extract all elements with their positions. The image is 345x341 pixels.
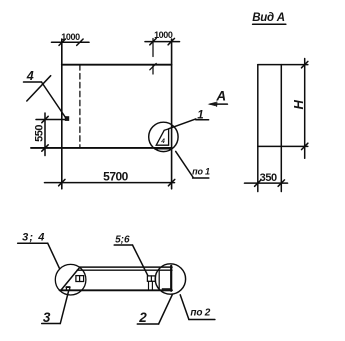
- gusset triangle in detail: [156, 129, 168, 145]
- inner vertical at right end: [158, 270, 160, 290]
- bar top line 1: [80, 266, 172, 268]
- svg-text:3: 3: [43, 310, 51, 325]
- slash across leader: [27, 76, 51, 101]
- svg-text:1000: 1000: [154, 30, 173, 40]
- embedded plate right end (filled): [162, 288, 171, 291]
- detail circle right (plan): [155, 264, 185, 294]
- label 3 underline: [42, 323, 61, 325]
- svg-text:Вид А: Вид А: [252, 12, 284, 24]
- leader 5;6: [133, 245, 148, 276]
- 550 top extension line: [36, 119, 67, 121]
- svg-text:5700: 5700: [103, 169, 129, 183]
- embedded part B (two panes): [147, 276, 155, 281]
- tick: [302, 143, 308, 149]
- tick: [42, 145, 48, 151]
- svg-text:5;6: 5;6: [115, 235, 130, 246]
- bar right end (thick): [170, 266, 172, 291]
- svg-text:3; 4: 3; 4: [22, 231, 45, 243]
- svg-text:1000: 1000: [61, 32, 80, 42]
- detail circle left (plan): [55, 264, 86, 295]
- svg-text:Н: Н: [291, 99, 306, 109]
- label po2 underline: [189, 319, 215, 321]
- svg-text:4: 4: [160, 138, 165, 145]
- leader po2: [180, 295, 189, 320]
- tick: [150, 38, 156, 44]
- view A arrow line: [210, 103, 227, 105]
- dimension line 350: [245, 182, 288, 184]
- Vid A underline: [253, 23, 286, 25]
- leader 3;4: [48, 243, 60, 269]
- tick: [168, 179, 174, 185]
- bar bottom line: [60, 289, 173, 291]
- leader 2: [159, 294, 173, 324]
- label 5;6 underline: [114, 244, 132, 246]
- tick: [255, 180, 261, 186]
- svg-text:А: А: [215, 89, 226, 104]
- anchor point marker (filled square): [65, 116, 69, 121]
- tick: [59, 179, 65, 185]
- dimension line 1000 right: [145, 41, 180, 43]
- svg-text:1: 1: [197, 109, 203, 121]
- side view left edge: [257, 65, 259, 192]
- tick: [168, 38, 174, 44]
- label 4 underline: [24, 81, 42, 83]
- leader to label po1: [176, 151, 194, 177]
- side view right edge: [280, 65, 282, 192]
- svg-text:350: 350: [260, 172, 277, 184]
- part B anchor legs: [148, 281, 150, 289]
- panel left edge (with extensions): [61, 39, 63, 189]
- embedded part C (small square): [66, 287, 69, 290]
- bar left bevel: [61, 267, 80, 290]
- side view top edge (extended): [258, 64, 308, 66]
- panel top edge: [62, 64, 172, 66]
- svg-text:по 1: по 1: [192, 167, 210, 177]
- svg-text:по 2: по 2: [190, 308, 210, 319]
- dashed axis line left 1000: [79, 65, 81, 148]
- label 1 underline: [196, 119, 209, 121]
- svg-text:2: 2: [138, 310, 147, 325]
- svg-text:4: 4: [26, 69, 34, 83]
- tick: [278, 180, 284, 186]
- view A arrowhead: [208, 102, 216, 106]
- bar top line 2: [77, 269, 172, 271]
- label 3;4 underline: [18, 242, 48, 244]
- base plate line under triangle: [155, 148, 172, 150]
- embedded part A (two panes): [76, 276, 84, 282]
- panel bottom edge (extended left): [31, 147, 172, 149]
- dimension line 5700: [45, 182, 175, 184]
- panel right edge (with extensions): [171, 39, 173, 189]
- leader 3: [60, 290, 69, 323]
- tick: [59, 39, 65, 45]
- extension line right 1000: [152, 39, 154, 57]
- tick: [42, 116, 48, 122]
- side view bottom edge (extended): [258, 145, 308, 147]
- leader from label 4 to anchor: [42, 82, 66, 118]
- tick: [302, 61, 308, 67]
- dimension line H: [304, 59, 306, 159]
- label po1 underline: [193, 177, 209, 179]
- dimension line 550: [44, 113, 46, 156]
- dimension line 1000 left: [52, 41, 90, 43]
- dashed stub right 1000: [152, 66, 154, 74]
- label 2 underline: [137, 323, 158, 325]
- detail circle 1: [149, 122, 178, 151]
- svg-text:550: 550: [34, 125, 46, 142]
- leader to label 1: [169, 119, 196, 129]
- tick: [77, 39, 83, 45]
